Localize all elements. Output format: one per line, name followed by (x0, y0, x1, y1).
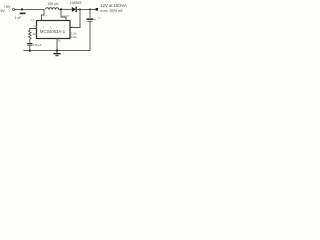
inductor L1 (46, 8, 59, 10)
wire input rail (15, 8, 44, 10)
wire diode to output (77, 8, 96, 10)
capacitor CT plate top (27, 43, 32, 44)
capacitor C3 plate top (87, 18, 94, 20)
wire coil to diode (59, 8, 72, 10)
wire pin8 drop (61, 9, 66, 20)
svg-text:100 uH: 100 uH (48, 2, 59, 6)
wire pin7 drop (42, 9, 45, 20)
wire pin5 to resistor (30, 29, 37, 31)
ground (56, 51, 58, 53)
svg-text:470 pF: 470 pF (33, 43, 42, 47)
node junction pin8 (60, 8, 62, 10)
output terminal (96, 8, 99, 11)
svg-text:1k2: 1k2 (32, 32, 37, 36)
node junction feedback (79, 8, 81, 10)
svg-text:5 o: 5 o (33, 24, 37, 28)
node junction R1 ground (29, 49, 31, 51)
capacitor C1 plate (20, 13, 26, 15)
svg-text:7.6: 7.6 (30, 18, 34, 22)
wire C3 bottom (24, 22, 91, 51)
op-amp U1 MC34063A box (37, 21, 71, 39)
wire C3 top (89, 9, 91, 17)
diode D1 (72, 7, 76, 12)
svg-text:5c.: 5c. (58, 38, 62, 42)
input terminal (12, 8, 14, 10)
svg-text:o:.: o:. (99, 16, 103, 20)
svg-text:12V at 150mA: 12V at 150mA (100, 3, 127, 8)
svg-text:MC34063A-1: MC34063A-1 (40, 29, 66, 34)
wire CT to ground bus (29, 46, 31, 51)
node junction C1 (21, 8, 23, 10)
wire IC ground pin drop (56, 39, 58, 51)
wire feedback drop (70, 9, 80, 27)
svg-text:max. 80% eff.: max. 80% eff. (100, 9, 123, 13)
svg-text:3.6k: 3.6k (71, 35, 77, 39)
node junction gnd (56, 49, 58, 51)
svg-text:pc sw: pc sw (62, 13, 70, 17)
capacitor C3 plate bottom (87, 20, 92, 23)
svg-text:1N5819: 1N5819 (70, 1, 82, 5)
resistor R1 (29, 31, 32, 43)
node junction C3 (89, 8, 91, 10)
capacitor CT plate bottom (27, 44, 32, 47)
svg-text:5V: 5V (1, 9, 6, 13)
svg-text:1 uF: 1 uF (15, 16, 22, 20)
